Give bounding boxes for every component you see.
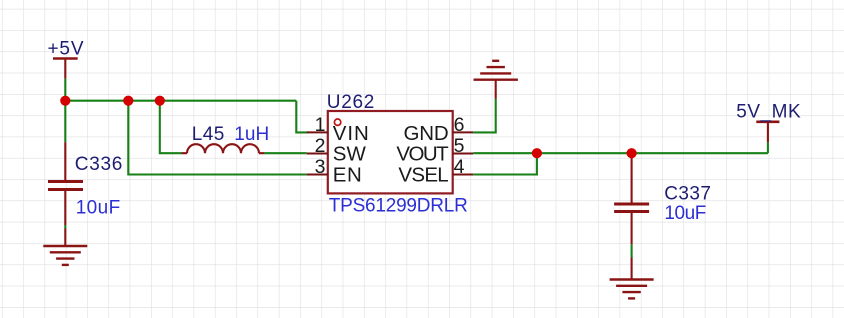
junction rail at C336 — [60, 96, 70, 106]
svg-text:EN: EN — [333, 164, 362, 187]
svg-text:4: 4 — [454, 156, 465, 178]
svg-text:3: 3 — [315, 156, 326, 178]
svg-text:VSEL: VSEL — [398, 164, 448, 187]
svg-text:VOUT: VOUT — [396, 143, 449, 166]
op-amp U262 body — [327, 92, 468, 217]
svg-text:10uF: 10uF — [76, 198, 121, 219]
svg-text:L45: L45 — [192, 124, 225, 145]
svg-text:U262: U262 — [327, 92, 375, 113]
capacitor C336 — [48, 142, 122, 225]
svg-text:+5V: +5V — [48, 39, 84, 60]
pin 4 VSEL — [398, 156, 473, 187]
wire VIN from rail to pin 1 — [296, 101, 307, 133]
capacitor C337 — [614, 156, 711, 244]
wire inductor to pin 2 — [264, 152, 307, 154]
svg-text:SW: SW — [333, 143, 367, 166]
svg-text:1: 1 — [315, 114, 326, 136]
svg-text:10uF: 10uF — [664, 203, 706, 224]
ground under C336 — [43, 229, 87, 265]
svg-text:5V_MK: 5V_MK — [736, 102, 801, 123]
wire 5V_MK drop — [767, 142, 769, 153]
svg-text:GND: GND — [404, 122, 449, 145]
pin 1 indicator circle — [334, 119, 340, 125]
svg-text:TPS61299DRLR: TPS61299DRLR — [329, 196, 468, 217]
svg-text:VIN: VIN — [333, 122, 369, 145]
ground under C337 — [610, 258, 654, 299]
wire C336 bottom to ground — [64, 225, 66, 229]
pin 3 EN — [307, 156, 362, 187]
wire +5V rail — [65, 79, 296, 101]
pin 6 GND — [404, 114, 474, 145]
pin 5 VOUT — [396, 135, 473, 166]
pin 2 SW — [307, 135, 367, 166]
inductor L45 — [182, 124, 270, 153]
wire C336 top — [64, 101, 66, 143]
power flag 5V_MK — [736, 102, 801, 143]
junction VOUT at C337 — [627, 148, 637, 158]
pin 1 VIN — [307, 114, 369, 145]
wire EN from rail to pin 3 — [128, 101, 306, 175]
svg-text:2: 2 — [315, 135, 326, 157]
power +5V — [48, 39, 84, 79]
wire VSEL to VOUT net — [473, 153, 537, 174]
junction rail at SW branch — [155, 96, 165, 106]
ground above pin 6 (inverted) — [474, 61, 518, 99]
junction VOUT at VSEL tie — [532, 148, 542, 158]
junction rail at EN branch — [123, 96, 133, 106]
svg-text:C336: C336 — [75, 154, 123, 175]
wire GND pin 6 to ground symbol — [473, 99, 496, 132]
svg-text:1uH: 1uH — [234, 124, 269, 145]
svg-text:6: 6 — [454, 114, 465, 136]
wire VOUT net — [473, 152, 768, 154]
wire C337 bottom to ground — [631, 244, 633, 257]
svg-text:C337: C337 — [664, 184, 711, 205]
wire SW branch to inductor — [160, 101, 182, 154]
svg-text:5: 5 — [454, 135, 465, 157]
